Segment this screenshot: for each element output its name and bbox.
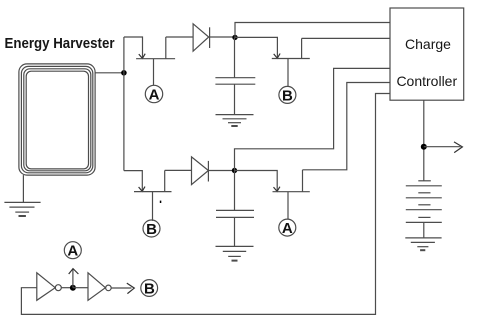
wire main vertical bus <box>123 37 125 171</box>
wire node 2 down to capacitor C1 <box>234 37 236 77</box>
wire Q1 drain to diode D1 <box>166 36 193 38</box>
node 3 junction dot <box>232 168 237 173</box>
capacitor C1 (top) <box>215 78 255 85</box>
svg-text:Controller: Controller <box>396 73 457 89</box>
node A (gate of Q1) <box>145 85 162 103</box>
capacitor C2 (bottom) <box>216 210 254 217</box>
wire Q2 drain to Charge Controller <box>302 37 390 39</box>
inverter U2 <box>37 273 62 301</box>
ground (battery) <box>405 238 441 250</box>
svg-text:B: B <box>146 221 157 238</box>
wire node 1 up to transistor Q1 source <box>124 37 143 58</box>
node 2 junction dot <box>232 35 237 40</box>
svg-text:Charge: Charge <box>405 36 451 52</box>
wire node 2 to transistor Q2 source <box>235 37 277 57</box>
wire node 1 bus to transistor Q3 source <box>124 171 142 191</box>
wire feedback from Charge Controller input 5 around bottom to inverter input <box>21 94 390 315</box>
diode D2 <box>192 157 209 185</box>
coil L1 (energy harvester inductor, nested turns) <box>19 64 95 175</box>
node B (gate of Q2) <box>279 86 296 104</box>
wire Q4 drain to Charge Controller input 4 <box>303 83 391 170</box>
wire coil output to node 1 <box>95 72 124 74</box>
node 4 junction dot (battery output tap) <box>421 144 427 150</box>
inverter U3 <box>88 273 111 301</box>
wire C2 to ground <box>234 217 236 246</box>
battery BT1 <box>406 181 442 223</box>
ground (C1) <box>216 115 254 126</box>
svg-text:B: B <box>282 87 293 104</box>
wire coil to ground <box>22 175 24 202</box>
transistor Q3 (bottom left) <box>134 170 172 221</box>
wire Charge Controller output to battery <box>423 100 425 180</box>
wire C1 to ground <box>234 84 236 114</box>
arrow U3 output to node B <box>111 283 134 294</box>
svg-text:A: A <box>67 243 78 260</box>
ground (C2) <box>216 246 254 260</box>
svg-text:B: B <box>144 280 155 297</box>
wire D2 cathode to node 3 <box>208 170 234 172</box>
stray mark (dot artifact near Q3) <box>160 201 162 203</box>
svg-text:A: A <box>149 86 160 103</box>
wire battery to ground <box>423 222 425 238</box>
svg-text:Energy Harvester: Energy Harvester <box>5 35 115 52</box>
wire node 2 to Charge Controller (top rail) <box>235 23 390 38</box>
wire node 3 to transistor Q4 source <box>235 171 278 192</box>
wire D1 cathode to node 2 <box>210 36 235 38</box>
transistor Q1 (top left) <box>136 37 175 85</box>
wire node 3 to Charge Controller input 3 <box>235 68 391 170</box>
transistor Q4 (bottom right) <box>273 170 310 219</box>
wire node 5 to inverter U3 <box>73 287 88 289</box>
node B (inverter output) <box>141 280 158 298</box>
wire U2 output to node 5 <box>61 287 73 289</box>
node 1 junction dot <box>121 70 127 76</box>
arrow node 5 up to node A <box>69 269 79 288</box>
node A (gate of Q4) <box>279 219 296 237</box>
diode D1 <box>193 24 210 51</box>
wire node 3 down to capacitor C2 <box>234 171 236 211</box>
ground (coil) <box>4 202 40 216</box>
Charge Controller box U1 <box>390 8 464 100</box>
node 5 junction dot <box>70 285 76 291</box>
node B (gate of Q3) <box>143 220 160 238</box>
transistor Q2 (top right) <box>272 38 310 86</box>
wire Q3 drain to diode D2 <box>165 169 192 171</box>
svg-text:A: A <box>282 220 293 237</box>
arrow output to load <box>424 142 463 153</box>
node A (inverter mid tap) <box>64 242 81 260</box>
